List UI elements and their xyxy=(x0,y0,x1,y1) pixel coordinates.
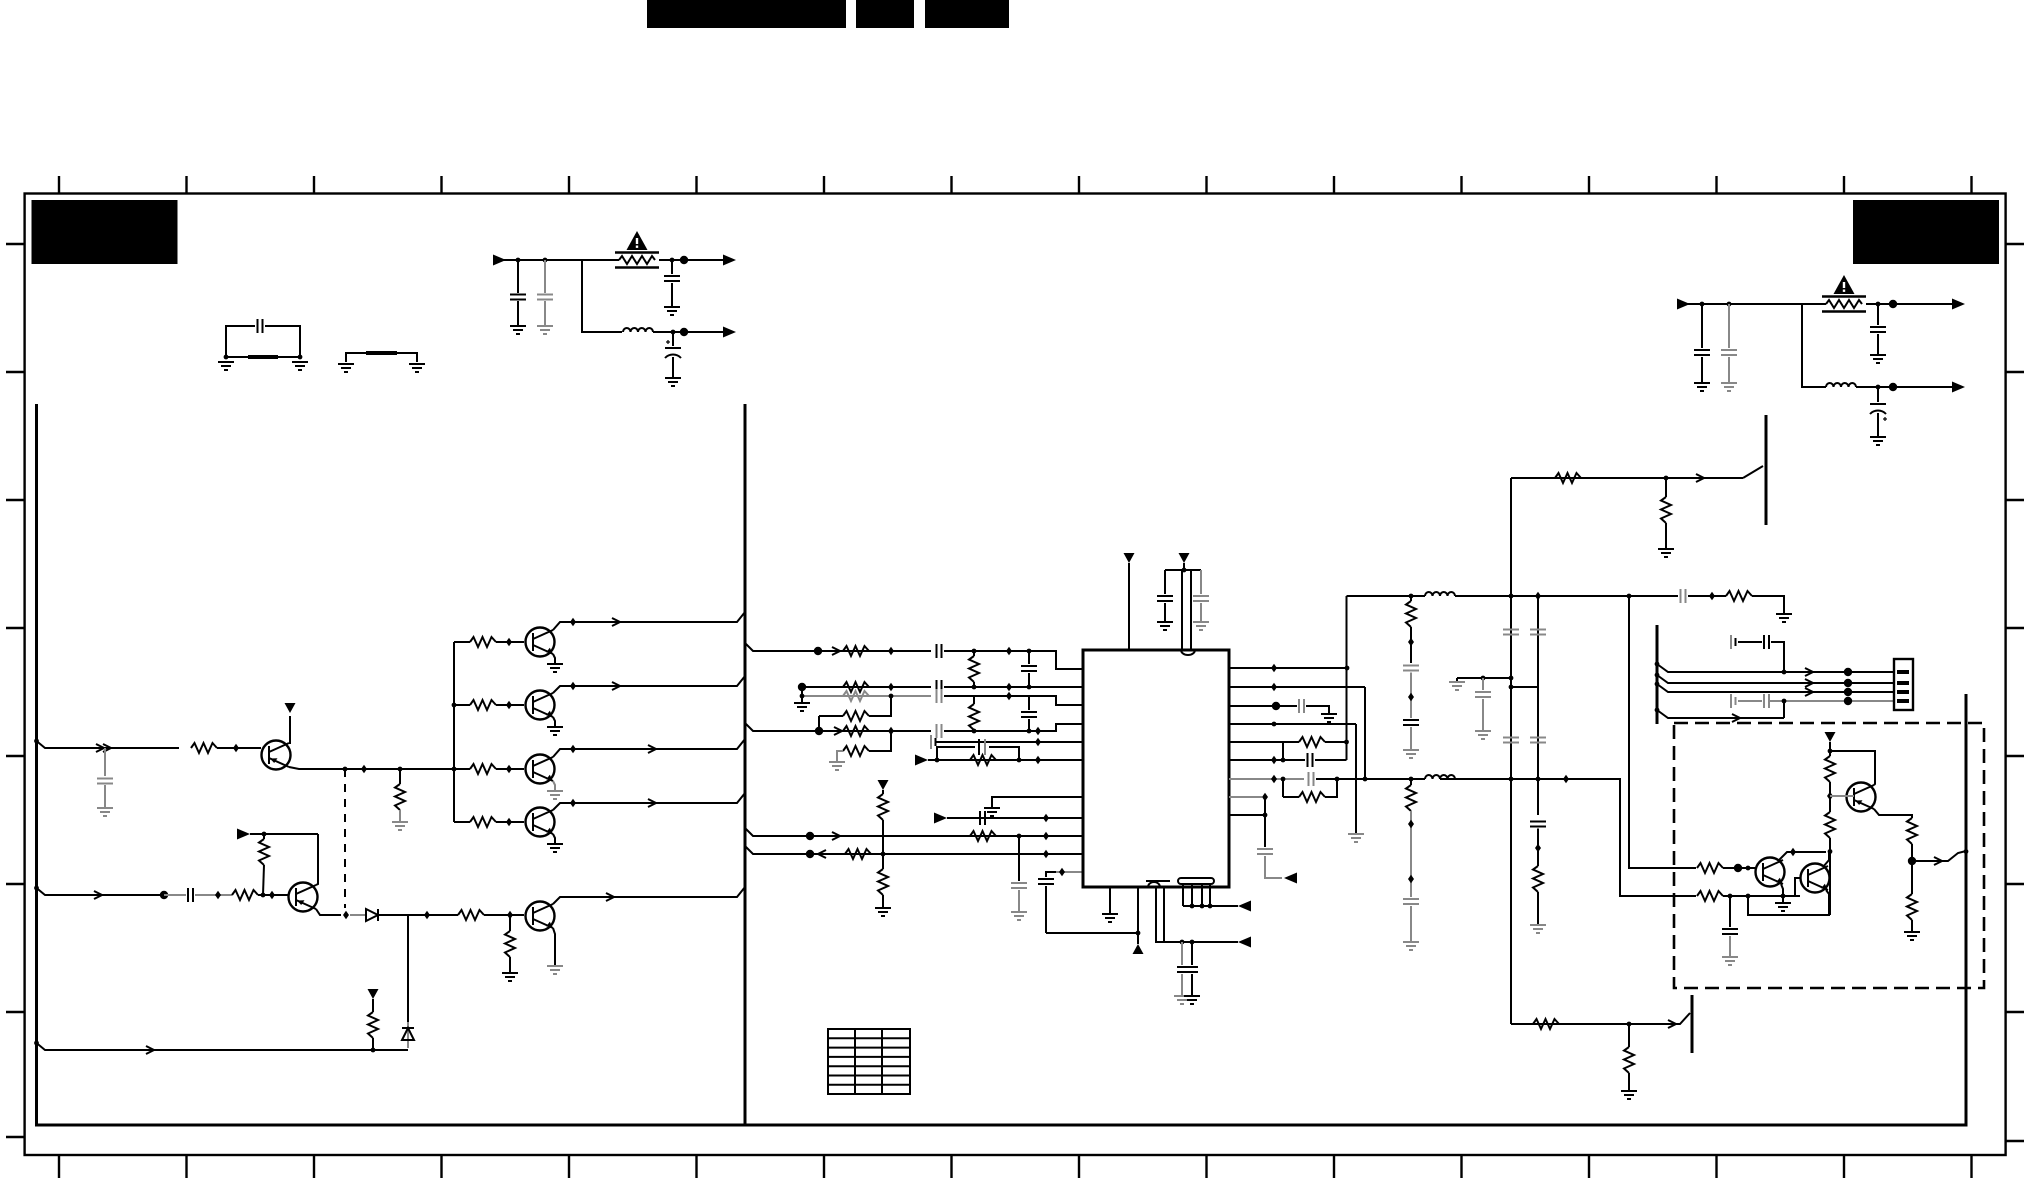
wire pin row B9 xyxy=(1229,814,1265,816)
ground xyxy=(1403,942,1419,950)
power arrow feed xyxy=(237,829,250,840)
capacitor C36 xyxy=(1530,822,1546,827)
resistor R1 xyxy=(191,743,217,753)
transistor Q6 xyxy=(526,808,555,837)
chevron xyxy=(612,682,620,690)
capacitor C16 xyxy=(937,724,942,738)
node xyxy=(543,258,548,263)
wire pin row B6 xyxy=(1229,759,1305,761)
diode D1 xyxy=(366,909,378,921)
notch top xyxy=(1181,650,1195,655)
resistor R16 xyxy=(819,715,843,717)
node xyxy=(160,891,168,899)
node xyxy=(1727,302,1732,307)
input arrow xyxy=(915,755,928,766)
node xyxy=(570,618,576,626)
chevron xyxy=(94,891,102,899)
output arrow left xyxy=(1238,937,1251,948)
node xyxy=(1017,758,1022,763)
wire xyxy=(1282,742,1284,760)
capacitor C23 xyxy=(1200,570,1202,594)
wire bundle xyxy=(1182,884,1184,906)
wire h1 xyxy=(1657,664,1848,672)
node xyxy=(1655,682,1660,687)
wire row A10 xyxy=(745,846,1083,854)
warning triangle xyxy=(627,231,648,250)
wire xyxy=(1128,563,1130,650)
resistor R23 xyxy=(845,849,871,859)
node xyxy=(1908,857,1916,865)
node xyxy=(1006,647,1012,655)
chevron xyxy=(96,744,104,752)
node xyxy=(1746,894,1751,899)
node xyxy=(935,758,940,763)
wire emitter xyxy=(1874,809,1912,818)
node xyxy=(1006,683,1012,691)
wire xyxy=(1866,303,1952,305)
resistor R14 xyxy=(843,682,869,692)
resistor R39 xyxy=(1533,1019,1559,1029)
wire xyxy=(1688,595,1712,597)
node xyxy=(1408,693,1414,701)
ground xyxy=(553,781,555,791)
ground xyxy=(1621,1091,1637,1099)
chevron xyxy=(818,850,826,858)
inductor L3 xyxy=(1425,592,1455,596)
node xyxy=(506,638,512,646)
resistor R22 xyxy=(970,831,996,841)
capacitor C20 xyxy=(1018,836,1020,881)
resistor R32 xyxy=(1665,478,1667,497)
node xyxy=(815,727,823,735)
center divider bus xyxy=(744,404,747,1125)
fuse F2 xyxy=(1822,297,1866,312)
wire xyxy=(226,356,300,358)
bottom bold rail xyxy=(35,1124,1966,1127)
wire emitter xyxy=(553,928,555,966)
wire xyxy=(164,894,186,896)
node xyxy=(1043,814,1049,822)
node xyxy=(507,911,513,919)
node xyxy=(262,832,267,837)
wire xyxy=(947,817,1083,819)
inductor L4 xyxy=(1425,775,1455,779)
wire row A4 xyxy=(745,723,931,731)
chevron xyxy=(648,799,656,807)
redaction bar top 3 xyxy=(925,0,1009,28)
node xyxy=(1746,866,1751,871)
node xyxy=(1272,722,1277,727)
node xyxy=(1027,685,1032,690)
node xyxy=(1782,699,1787,704)
fuse F1 xyxy=(615,253,659,268)
capacitor C27 xyxy=(1309,772,1314,786)
node xyxy=(1700,302,1705,307)
wire collector top xyxy=(1830,751,1875,760)
wire xyxy=(1681,303,1826,305)
resistor R3 xyxy=(454,641,470,643)
ground xyxy=(409,364,425,372)
wire xyxy=(1046,932,1138,934)
node xyxy=(452,767,457,772)
node xyxy=(1344,740,1349,745)
resistor R4 xyxy=(454,704,470,706)
node xyxy=(1889,383,1897,391)
node xyxy=(233,744,239,752)
node xyxy=(570,745,576,753)
node xyxy=(1059,868,1065,876)
chevron xyxy=(612,618,620,626)
node xyxy=(269,891,275,899)
node xyxy=(1782,670,1787,675)
node xyxy=(888,683,894,691)
node xyxy=(424,911,430,919)
power flag xyxy=(368,989,379,999)
transistor Q5 xyxy=(526,755,555,784)
wire h3 xyxy=(1657,684,1848,692)
resistor R10 xyxy=(509,915,511,931)
transistor Q3 xyxy=(526,628,555,657)
resistor R34 xyxy=(1825,812,1835,838)
node xyxy=(881,852,886,857)
wire collector xyxy=(553,739,745,757)
output arrow left xyxy=(1284,873,1297,884)
polarized capacitor C9 xyxy=(1877,387,1879,402)
wire pin row B3 xyxy=(1229,705,1297,707)
node xyxy=(1027,649,1032,654)
node xyxy=(371,1048,376,1053)
wire xyxy=(497,259,619,261)
node xyxy=(1335,777,1340,782)
resistor R26 loop xyxy=(1282,779,1284,797)
resistor R27 xyxy=(1712,595,1726,597)
node xyxy=(1006,692,1012,700)
node xyxy=(1345,666,1350,671)
node xyxy=(814,647,822,655)
transistor Q4 xyxy=(526,691,555,720)
wire xyxy=(217,747,261,749)
wire xyxy=(250,833,318,835)
wire row A2 xyxy=(802,686,931,688)
border frame xyxy=(25,194,2006,1156)
ground tap xyxy=(1782,896,1784,903)
wire xyxy=(659,259,723,261)
wire branch xyxy=(582,260,622,332)
chevron xyxy=(606,893,614,901)
junction xyxy=(407,915,409,1022)
wire collector xyxy=(553,887,745,904)
IC U1 xyxy=(1083,650,1229,887)
column C33 xyxy=(1510,478,1512,1024)
output arrow xyxy=(1952,299,1965,310)
node xyxy=(1271,775,1277,783)
resistor R19 pulldown xyxy=(869,731,891,751)
capacitor C3 xyxy=(544,260,546,293)
transistor Q9 xyxy=(1756,858,1785,887)
wire h2 xyxy=(1657,675,1848,683)
ground xyxy=(553,654,555,664)
capacitor C28 xyxy=(1257,849,1273,854)
node xyxy=(1136,931,1141,936)
wire top link xyxy=(1347,595,1426,597)
right bold rail xyxy=(1965,694,1968,1127)
node xyxy=(1190,904,1195,909)
node xyxy=(1655,673,1660,678)
ground xyxy=(547,966,563,974)
redaction block top-right xyxy=(1853,200,1999,264)
capacitor C10 xyxy=(104,748,106,776)
node xyxy=(806,832,814,840)
wire xyxy=(350,914,366,916)
wire collector xyxy=(1778,852,1826,861)
wire xyxy=(1264,797,1266,847)
wire collector xyxy=(1874,760,1875,785)
node xyxy=(224,355,229,360)
resistor R24 xyxy=(882,854,884,869)
chevron xyxy=(648,745,656,753)
node xyxy=(1827,792,1833,800)
chevron xyxy=(146,1046,154,1054)
node xyxy=(343,911,349,919)
ground xyxy=(1722,957,1738,965)
notch bottom 2 xyxy=(1178,878,1214,884)
capacitor C31 xyxy=(1403,720,1419,725)
node xyxy=(506,818,512,826)
ground xyxy=(553,834,555,844)
node xyxy=(670,258,675,263)
node xyxy=(1844,697,1852,705)
resistor R2 xyxy=(399,769,401,784)
wire row A11 xyxy=(1056,871,1083,873)
wire xyxy=(1783,701,1785,718)
output arrow xyxy=(723,327,736,338)
capacitor C2 xyxy=(517,260,519,293)
chain column R29 xyxy=(1410,779,1412,785)
inductor L1 xyxy=(623,328,653,332)
connector P1 xyxy=(1894,659,1913,710)
node xyxy=(1281,758,1286,763)
resistor R21 xyxy=(882,790,884,794)
resistor R8 xyxy=(263,834,265,839)
resistor R35 xyxy=(1907,818,1917,844)
wire collector xyxy=(553,793,745,810)
ground xyxy=(1658,549,1674,557)
resistor R7 xyxy=(232,890,258,900)
node xyxy=(1889,300,1897,308)
jumper loop J1 xyxy=(226,326,300,357)
node xyxy=(1408,820,1414,828)
node xyxy=(1627,594,1632,599)
resistor R15 xyxy=(843,691,869,701)
wire xyxy=(1183,905,1238,907)
ground xyxy=(829,762,845,770)
node xyxy=(1190,940,1195,945)
wire bottom row xyxy=(1511,1023,1647,1025)
capacitor C15 xyxy=(937,689,942,703)
wire collector up xyxy=(289,716,290,743)
ferrite bead FB2 xyxy=(366,351,397,355)
transistor Q10 xyxy=(1801,864,1830,893)
wire riser xyxy=(1346,596,1348,760)
node xyxy=(398,767,403,772)
capacitor C12 xyxy=(937,644,942,658)
chevron xyxy=(1805,668,1813,676)
node xyxy=(506,765,512,773)
power flag column xyxy=(878,780,889,790)
node xyxy=(1728,894,1733,899)
node xyxy=(570,799,576,807)
node xyxy=(972,649,977,654)
ground row pin xyxy=(992,797,1083,808)
resistor R37 boxrow A xyxy=(1697,863,1723,873)
node xyxy=(888,647,894,655)
transistor Q2 xyxy=(289,883,318,912)
ground row xyxy=(1457,677,1511,679)
node xyxy=(516,258,521,263)
wire row A1 xyxy=(745,643,931,651)
node xyxy=(1535,844,1541,852)
ground xyxy=(1184,996,1200,1004)
resistor R30 xyxy=(1533,866,1543,892)
resistor R25 xyxy=(1283,741,1299,743)
capacitor C4 xyxy=(671,260,673,274)
wire pin row B8 xyxy=(1229,796,1262,798)
node xyxy=(1043,850,1049,858)
wire emitter xyxy=(1781,884,1783,897)
node xyxy=(1876,385,1881,390)
harness bus xyxy=(1656,625,1659,724)
node xyxy=(1035,756,1041,764)
power flag xyxy=(285,703,296,713)
capacitor C19 xyxy=(980,811,985,825)
capacitor C30 xyxy=(1403,666,1419,671)
node xyxy=(800,694,805,699)
node xyxy=(798,683,806,691)
node xyxy=(343,767,348,772)
capacitor C14 xyxy=(937,680,942,694)
resistor R13 xyxy=(973,651,975,656)
inductor L2 xyxy=(1826,383,1856,387)
wire xyxy=(801,687,803,703)
capacitor C32 xyxy=(1403,899,1419,904)
warning triangle xyxy=(1834,275,1855,294)
redaction bar top 2 xyxy=(856,0,914,28)
chevron xyxy=(1934,857,1942,865)
ground xyxy=(1174,996,1190,1004)
capacitor C35 xyxy=(1482,678,1484,690)
ground xyxy=(292,362,308,370)
ground xyxy=(1348,834,1364,842)
resistor R20 xyxy=(970,755,996,765)
node xyxy=(1035,727,1041,735)
node xyxy=(34,739,39,744)
wire link xyxy=(1511,686,1538,688)
power flag xyxy=(1179,553,1190,563)
ground xyxy=(553,717,555,727)
node xyxy=(1035,738,1041,746)
transistor T2 xyxy=(1647,1013,1690,1024)
resistor R11 xyxy=(372,999,374,1012)
node xyxy=(1876,302,1881,307)
node xyxy=(1271,664,1277,672)
wire dropper xyxy=(1364,687,1366,779)
node xyxy=(1964,849,1969,854)
ground xyxy=(875,908,891,916)
resistor R5 xyxy=(454,768,470,770)
ground xyxy=(1102,914,1118,922)
wire supply pair xyxy=(1181,570,1183,650)
wire row A6 xyxy=(928,759,1083,761)
node xyxy=(972,729,977,734)
table xyxy=(828,1029,910,1094)
node xyxy=(1535,592,1541,600)
capacitor C6 xyxy=(1701,304,1703,348)
wire xyxy=(1829,742,1831,756)
ground xyxy=(1776,614,1792,622)
chain column R28 xyxy=(1410,596,1412,601)
crystal cap row xyxy=(931,735,936,749)
wire pin row B5 xyxy=(1229,741,1283,743)
node xyxy=(1408,875,1414,883)
node xyxy=(506,701,512,709)
wire sense xyxy=(1137,887,1139,944)
wire row A5 xyxy=(936,741,1083,743)
node xyxy=(1664,476,1669,481)
wire xyxy=(1316,778,1425,780)
node xyxy=(1563,775,1569,783)
node xyxy=(1180,940,1185,945)
chevron xyxy=(1732,714,1740,722)
wire h5 xyxy=(1657,710,1784,718)
wire xyxy=(1455,595,1678,597)
resistor R17 xyxy=(843,726,869,736)
node xyxy=(1271,683,1277,691)
node xyxy=(889,694,894,699)
resistor R9 xyxy=(454,914,458,916)
chevron xyxy=(1668,1020,1676,1028)
wire h4 xyxy=(1770,700,1894,702)
wire dropper to box xyxy=(1566,779,1696,896)
node xyxy=(1509,676,1514,681)
wire xyxy=(258,894,288,896)
ground xyxy=(1011,912,1027,920)
ground xyxy=(1403,750,1419,758)
chevron xyxy=(834,727,842,735)
resistor R18 xyxy=(973,696,975,704)
capacitor C21 xyxy=(1046,872,1056,877)
node xyxy=(1844,668,1852,676)
wire base link xyxy=(1795,878,1800,896)
node xyxy=(671,330,676,335)
node xyxy=(680,256,688,264)
wire xyxy=(1315,759,1347,761)
wire row A9 xyxy=(745,828,1083,836)
wire dropper xyxy=(1355,724,1357,834)
node xyxy=(1043,832,1049,840)
dashed wire xyxy=(344,769,346,908)
wire input 2 xyxy=(37,888,162,895)
wire xyxy=(1723,895,1800,897)
transistor Q1 xyxy=(262,741,291,770)
ground xyxy=(1530,925,1546,933)
input arrow row A8 xyxy=(934,813,947,824)
capacitor C25 xyxy=(1299,699,1304,713)
ground xyxy=(218,362,234,370)
ground xyxy=(1904,932,1920,940)
node xyxy=(1509,685,1514,690)
chevron xyxy=(832,832,840,840)
resistor R6 xyxy=(454,821,470,823)
